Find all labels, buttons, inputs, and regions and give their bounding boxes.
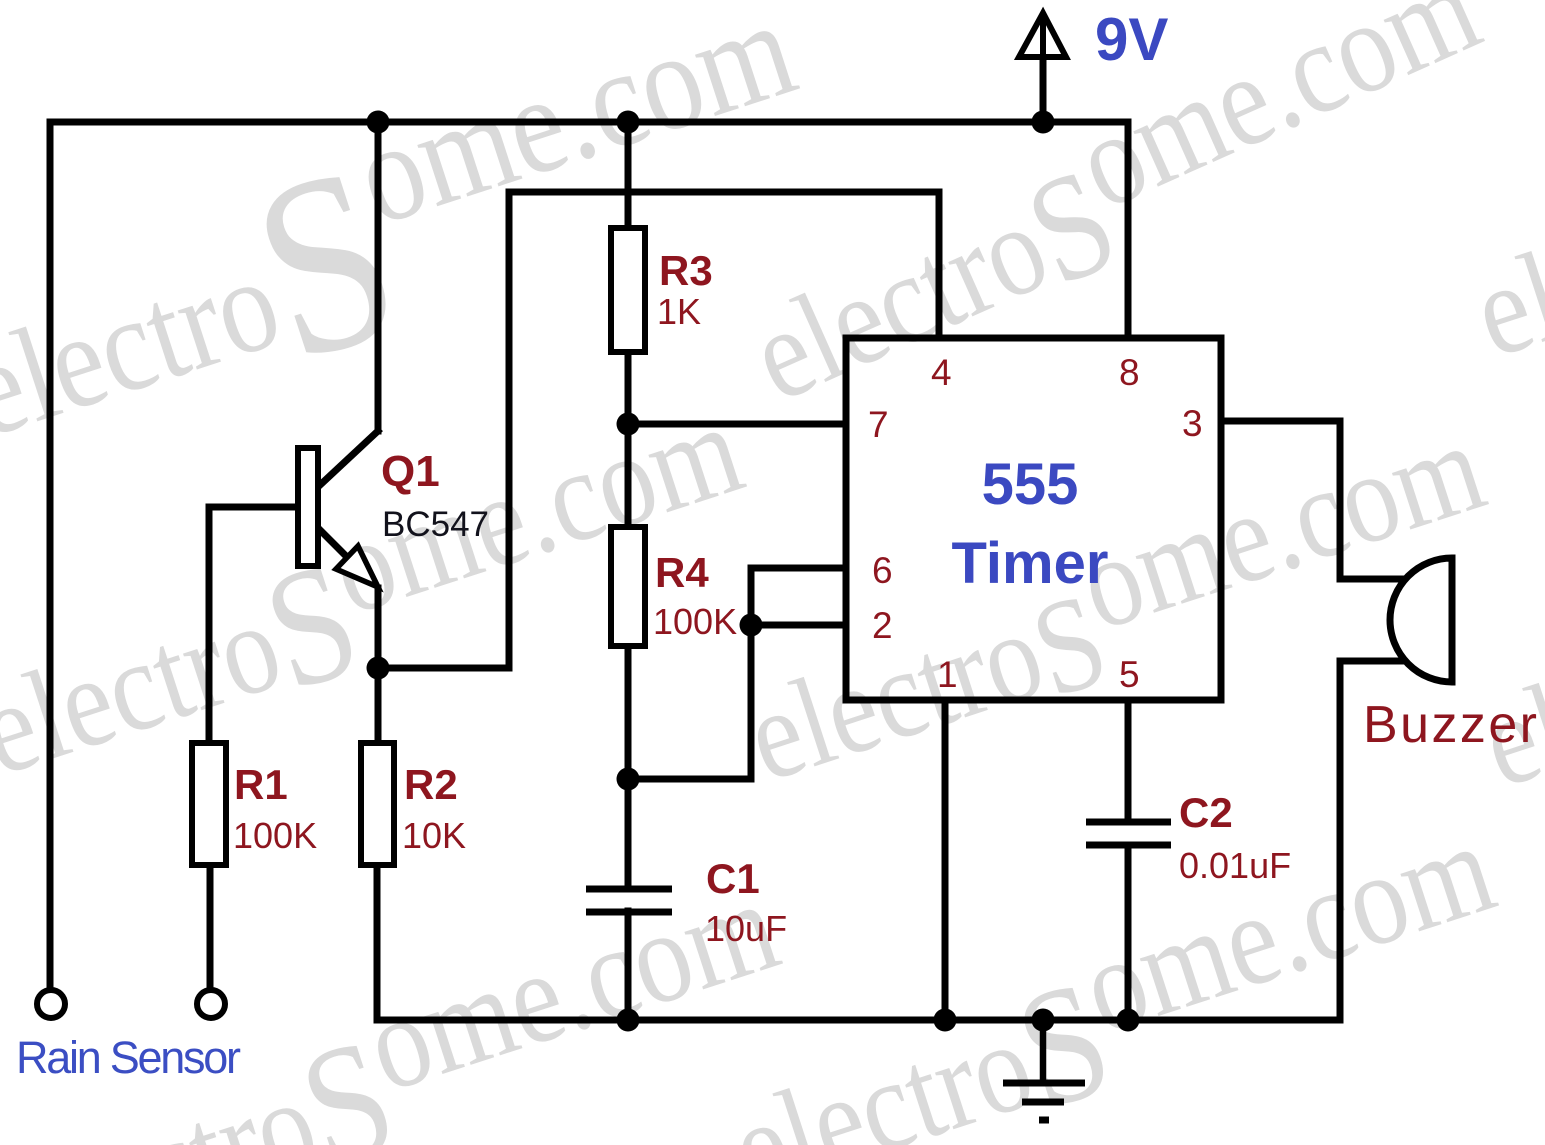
wire pin8 drop xyxy=(1125,122,1132,338)
node junction bottom-C1 xyxy=(617,1009,640,1032)
wire pin2 xyxy=(751,622,846,629)
wire pin4 branch horizontal xyxy=(509,189,939,196)
node junction emitter xyxy=(367,657,390,680)
buzzer BZ1 xyxy=(1390,558,1452,682)
svg-text:1: 1 xyxy=(937,654,958,695)
IC U1 555 timer box xyxy=(846,338,1221,700)
resistor R4 xyxy=(611,527,645,646)
svg-text:2: 2 xyxy=(872,605,893,646)
svg-text:Timer: Timer xyxy=(952,531,1109,596)
wire R2 bottom lead xyxy=(374,865,381,1020)
wire pin6 xyxy=(751,565,846,572)
svg-text:Rain Sensor: Rain Sensor xyxy=(16,1032,241,1083)
svg-text:C1: C1 xyxy=(706,855,760,902)
svg-text:Q1: Q1 xyxy=(381,447,440,496)
svg-text:3: 3 xyxy=(1182,403,1203,444)
svg-text:10uF: 10uF xyxy=(705,908,787,949)
node junction pin2 xyxy=(740,614,763,637)
svg-text:555: 555 xyxy=(982,452,1079,517)
wire R3-R4 xyxy=(625,424,632,527)
wire C1 bottom lead xyxy=(625,911,632,1020)
svg-text:BC547: BC547 xyxy=(382,505,489,544)
capacitor C2 xyxy=(1086,822,1171,845)
resistor R3 xyxy=(611,228,645,352)
wire R4 bottom lead xyxy=(625,646,632,886)
wire base drop xyxy=(206,507,213,743)
node junction bottom-ground xyxy=(1032,1009,1055,1032)
svg-text:9V: 9V xyxy=(1095,6,1168,73)
rain sensor terminal right xyxy=(197,990,225,1018)
wire buzzer bottom return xyxy=(1340,661,1406,1020)
svg-text:100K: 100K xyxy=(653,601,737,642)
wire pin5 drop xyxy=(1125,700,1132,822)
wire pin7 xyxy=(628,421,846,428)
wire bottom rail xyxy=(377,1017,1340,1024)
node junction top-R3 xyxy=(617,111,640,134)
capacitor C1 xyxy=(586,889,672,912)
wire R3 top lead xyxy=(625,122,632,228)
wire emitter diagonal xyxy=(320,530,350,560)
wire C2 bottom lead xyxy=(1125,845,1132,1020)
wire top rail xyxy=(50,119,1128,126)
svg-text:100K: 100K xyxy=(233,815,317,856)
wire emitter drop xyxy=(375,588,382,743)
svg-text:7: 7 xyxy=(868,404,889,445)
resistor R2 xyxy=(361,743,394,865)
wire R3 bottom lead to node xyxy=(625,352,632,424)
svg-text:Buzzer: Buzzer xyxy=(1363,696,1537,754)
svg-text:6: 6 xyxy=(872,550,893,591)
node junction top-collector xyxy=(367,111,390,134)
svg-text:R4: R4 xyxy=(655,549,709,596)
wire pin4 drop xyxy=(936,192,943,338)
svg-text:R3: R3 xyxy=(659,247,713,294)
transistor Q1 base bar xyxy=(298,448,318,566)
wire emitter node to left branch xyxy=(378,665,509,672)
svg-text:R2: R2 xyxy=(404,761,458,808)
svg-text:8: 8 xyxy=(1119,352,1140,393)
svg-text:10K: 10K xyxy=(402,815,466,856)
wire node to pin6 riser xyxy=(628,568,751,779)
node junction bottom-pin1 xyxy=(934,1009,957,1032)
transistor Q1 emitter arrow xyxy=(336,546,378,587)
node junction R4-C1 xyxy=(617,768,640,791)
node junction top-9V xyxy=(1032,111,1055,134)
node junction R3-pin7 xyxy=(617,413,640,436)
svg-text:5: 5 xyxy=(1119,654,1140,695)
wire pin1 drop xyxy=(942,700,949,1020)
svg-text:R1: R1 xyxy=(234,761,288,808)
svg-text:1K: 1K xyxy=(657,291,701,332)
wire collector riser xyxy=(375,122,382,431)
wire left branch drop xyxy=(506,192,513,668)
node junction bottom-C2 xyxy=(1117,1009,1140,1032)
resistor R1 xyxy=(192,743,226,865)
wire left rail xyxy=(47,122,54,989)
svg-text:0.01uF: 0.01uF xyxy=(1179,845,1291,886)
wire pin3 to buzzer top xyxy=(1221,421,1406,579)
power 9V arrow xyxy=(1040,20,1047,122)
ground xyxy=(1003,1020,1085,1120)
svg-text:C2: C2 xyxy=(1179,789,1233,836)
wire R1 bottom lead xyxy=(207,865,214,988)
rain sensor terminal left xyxy=(37,990,65,1018)
wire base xyxy=(209,504,298,511)
svg-text:4: 4 xyxy=(931,352,952,393)
wire collector diagonal xyxy=(320,431,378,485)
